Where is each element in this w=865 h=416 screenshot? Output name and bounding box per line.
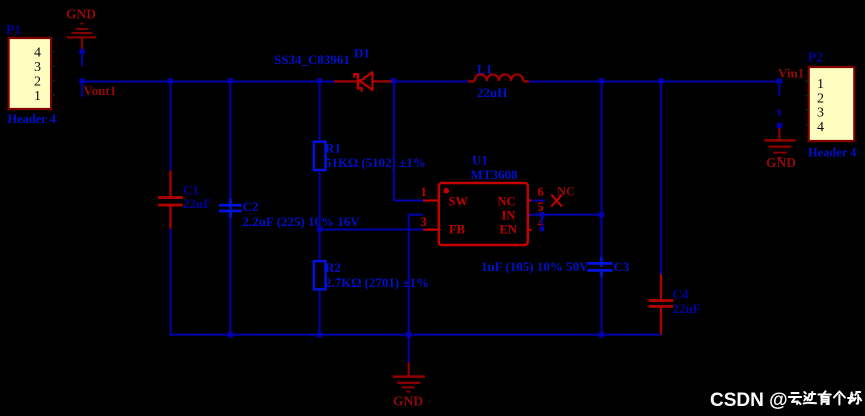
junction top rail at R1 <box>317 78 322 83</box>
U1 value label MT3608 <box>471 167 518 182</box>
C3 designator label <box>614 259 630 274</box>
junction top rail at C1 <box>167 78 172 83</box>
junction top rail at SW drop <box>391 78 396 83</box>
U1 designator label <box>472 153 488 168</box>
wire C2 branch upper <box>229 82 231 204</box>
P1 pin 3 number <box>34 60 41 75</box>
svg-text:C4: C4 <box>673 287 689 302</box>
svg-text:IN: IN <box>502 209 516 223</box>
wire C1 branch lower <box>170 229 172 336</box>
svg-text:6: 6 <box>538 185 544 199</box>
svg-text:C2: C2 <box>243 199 259 214</box>
C2 value label <box>243 214 361 229</box>
power port GND bottom label <box>393 394 423 409</box>
svg-text:P2: P2 <box>808 50 823 65</box>
svg-text:GND: GND <box>66 7 96 22</box>
junction at IN / C3 column <box>599 212 604 217</box>
P2 pin 3 number <box>817 106 824 121</box>
wire P2 pin3 to pin4 column x=779 <box>778 109 780 116</box>
R1 value label <box>325 155 426 170</box>
U1 pin 5 number <box>538 200 544 214</box>
connector P2 body <box>809 67 855 141</box>
wire stub on pin 6 <box>531 200 545 202</box>
svg-text:3: 3 <box>421 215 427 229</box>
wire SW horizontal to pin 1 <box>393 200 423 202</box>
svg-text:P1: P1 <box>6 22 21 37</box>
capacitor C1 top lead <box>169 171 171 197</box>
resistor R2 <box>314 261 326 289</box>
junction at EN riser <box>539 212 544 217</box>
R2 value label <box>325 275 429 290</box>
wire SW drop vertical <box>393 82 395 201</box>
wire pin4 to pin3 column x=82 <box>81 54 83 66</box>
diode D1 right lead <box>374 80 392 82</box>
inductor L1 right lead <box>523 80 529 82</box>
C2 designator label <box>243 199 259 214</box>
junction top rail at C3 column <box>599 78 604 83</box>
power port GND bottom symbol <box>393 363 425 393</box>
U1 pin 1 number <box>421 185 427 199</box>
wire top rail Vout1 segment <box>82 81 334 83</box>
wire R1 branch upper <box>319 82 321 141</box>
capacitor C2 plates and stubs <box>219 199 242 218</box>
C1 designator label <box>183 183 199 198</box>
C4 value label 22uF <box>673 301 701 316</box>
wire R1 to FB junction <box>319 171 321 260</box>
D1 designator label <box>354 46 370 61</box>
junction top rail at C2 <box>228 78 233 83</box>
P1 pin 4 number <box>34 46 41 61</box>
svg-text:EN: EN <box>500 223 517 237</box>
P2 pin 2 stub <box>805 95 808 97</box>
wire pin2 to pin1 column x=82 <box>81 84 83 97</box>
svg-text:1: 1 <box>34 89 41 104</box>
diode D1 left lead <box>322 80 357 82</box>
P1 pin 2 stub <box>52 80 55 82</box>
svg-text:1: 1 <box>421 185 427 199</box>
P2 pin 3 stub <box>805 109 808 111</box>
svg-text:D1: D1 <box>354 46 370 61</box>
svg-text:4: 4 <box>817 120 824 135</box>
wire C3 column top-rail to IN <box>601 82 603 212</box>
svg-text:Header 4: Header 4 <box>808 146 856 160</box>
svg-text:SW: SW <box>449 195 469 209</box>
svg-text:22uF: 22uF <box>183 196 211 211</box>
svg-text:CSDN @: CSDN @ <box>710 390 788 411</box>
capacitor C4 bottom lead <box>660 308 662 335</box>
U1 pin 1 line <box>423 199 439 201</box>
resistor R1 <box>314 142 326 170</box>
junction bottom rail at C2 <box>228 332 233 337</box>
wire IN from pin 5 to C3 column <box>529 214 603 216</box>
wire C3 branch lower <box>601 277 603 336</box>
diode D1 schottky cathode bar <box>353 73 363 92</box>
svg-text:R2: R2 <box>325 260 341 275</box>
P1 designator label <box>6 22 21 37</box>
P2 pin 4 stub <box>805 124 808 126</box>
U1 SW pin name <box>449 195 469 209</box>
U1 pin 4 line <box>528 229 532 231</box>
C1 value label 22uF <box>183 196 211 211</box>
wire EN riser foot <box>540 227 544 231</box>
no-ERC marker X on pin 6 <box>551 195 562 207</box>
svg-text:NC: NC <box>557 185 575 199</box>
wire C1 branch upper <box>170 82 172 171</box>
wire bottom ground rail <box>170 334 662 336</box>
wire top rail diode-to-SW segment <box>392 81 469 83</box>
junction top rail at C4 column <box>658 78 663 83</box>
capacitor C4 top lead <box>660 274 662 300</box>
svg-text:GND: GND <box>766 155 796 170</box>
svg-text:51KΩ (5102) ±1%: 51KΩ (5102) ±1% <box>325 155 426 170</box>
P1 pin 2 number <box>34 75 41 90</box>
U1 pin 3 line <box>423 229 439 231</box>
U1 EN pin name <box>500 223 517 237</box>
capacitor C1 bottom lead <box>169 207 171 229</box>
U1 pin 5 line <box>528 214 532 216</box>
U1 pin-1 marker dot <box>444 188 450 194</box>
svg-text:2.7KΩ (2701) ±1%: 2.7KΩ (2701) ±1% <box>325 275 429 290</box>
junction top rail at Vin1 / P2 pin 1 <box>777 78 782 83</box>
junction at P2 pin 4 / GND <box>777 123 782 128</box>
svg-text:FB: FB <box>449 223 465 237</box>
power port GND right symbol <box>764 128 795 158</box>
power port GND top-left label <box>66 7 96 22</box>
U1 pin 3 number <box>421 215 427 229</box>
op-amp U1 body <box>439 183 528 245</box>
svg-text:3: 3 <box>817 106 824 121</box>
P1 pin 1 number <box>34 89 41 104</box>
capacitor C3 plates and stubs <box>587 257 612 277</box>
watermark chinese glyphs <box>789 391 861 404</box>
U1 NC pin name <box>498 195 516 209</box>
svg-text:1uF (105) 10% 50V: 1uF (105) 10% 50V <box>481 259 589 274</box>
svg-text:4: 4 <box>34 46 41 61</box>
svg-text:Vout1: Vout1 <box>84 83 117 98</box>
svg-text:Vin1: Vin1 <box>778 66 804 81</box>
junction bottom rail at R2 <box>317 332 322 337</box>
svg-text:SS34_C83961: SS34_C83961 <box>274 52 350 67</box>
P2 value label Header 4 <box>808 146 856 160</box>
junction bottom rail at C3 <box>599 332 604 337</box>
P1 pin 1 stub <box>52 94 55 96</box>
L1 value label 22uH <box>477 85 507 100</box>
svg-text:1: 1 <box>817 77 824 92</box>
capacitor C1 plates <box>158 196 183 206</box>
U1 IN pin name <box>502 209 516 223</box>
svg-text:2: 2 <box>34 75 41 90</box>
P1 pin 3 stub <box>52 65 55 67</box>
R2 designator label <box>325 260 341 275</box>
wire C4 branch upper <box>660 82 662 274</box>
L1 designator label <box>477 62 492 77</box>
svg-text:22uH: 22uH <box>477 85 507 100</box>
P2 pin 1 stub <box>805 80 808 82</box>
svg-text:22uF: 22uF <box>673 301 701 316</box>
svg-text:C3: C3 <box>614 259 630 274</box>
connector P1 body <box>9 38 52 109</box>
wire pin 2 drop to ground rail <box>408 214 410 336</box>
wire pin 2 horizontal <box>408 214 423 216</box>
NC text label <box>557 185 575 199</box>
svg-text:R1: R1 <box>325 141 341 156</box>
wire EN riser pin4 to IN wire <box>541 216 543 231</box>
P2 designator label <box>808 50 823 65</box>
U1 pin 6 number <box>538 185 544 199</box>
svg-text:3: 3 <box>34 60 41 75</box>
svg-text:2: 2 <box>817 92 824 107</box>
P2 pin 1 number <box>817 77 824 92</box>
D1 value label SS34 <box>274 52 350 67</box>
capacitor C4 plates <box>649 299 674 308</box>
junction bottom rail at GND <box>406 332 411 337</box>
power port GND right label <box>766 155 796 170</box>
svg-text:2.2uF (225) 10% 16V: 2.2uF (225) 10% 16V <box>243 214 361 229</box>
svg-text:5: 5 <box>538 200 544 214</box>
wire GND stem blue <box>408 336 410 363</box>
inductor L1 arcs <box>475 74 524 81</box>
power port GND top-left symbol (pointing up) <box>67 23 97 50</box>
U1 FB pin name <box>449 223 465 237</box>
U1 pin 4 number <box>538 216 545 230</box>
C3 value label <box>481 259 589 274</box>
junction FB node <box>317 227 322 232</box>
svg-text:Header 4: Header 4 <box>8 112 56 126</box>
P2 pin 4 number <box>817 120 824 135</box>
wire P2 pin1 to pin2 column x=779 <box>778 84 780 96</box>
C4 designator label <box>673 287 689 302</box>
svg-text:MT3608: MT3608 <box>471 167 518 182</box>
P2 pin 2 number <box>817 92 824 107</box>
P1 value label Header 4 <box>8 112 56 126</box>
svg-text:GND: GND <box>393 394 423 409</box>
net label Vin1 <box>778 66 804 81</box>
net label Vout1 <box>84 83 117 98</box>
wire R2 branch lower <box>319 291 321 336</box>
R1 designator label <box>325 141 341 156</box>
U1 pin 6 line <box>528 199 532 201</box>
wire C2 branch lower <box>229 218 231 336</box>
P1 pin 4 stub <box>52 51 55 53</box>
wire C3 column IN to C3 <box>601 217 603 262</box>
junction at Vout1 / P1 pin 2 <box>79 78 84 83</box>
svg-text:U1: U1 <box>472 153 488 168</box>
watermark CSDN text <box>710 390 788 411</box>
wire FB horizontal <box>320 229 423 231</box>
inductor L1 left lead <box>468 80 475 82</box>
svg-text:L1: L1 <box>477 62 492 77</box>
junction at GND / P1 pin 4 <box>79 49 84 54</box>
diode D1 triangle <box>360 72 372 90</box>
wire top rail after L1 <box>528 81 780 83</box>
svg-text:NC: NC <box>498 195 516 209</box>
